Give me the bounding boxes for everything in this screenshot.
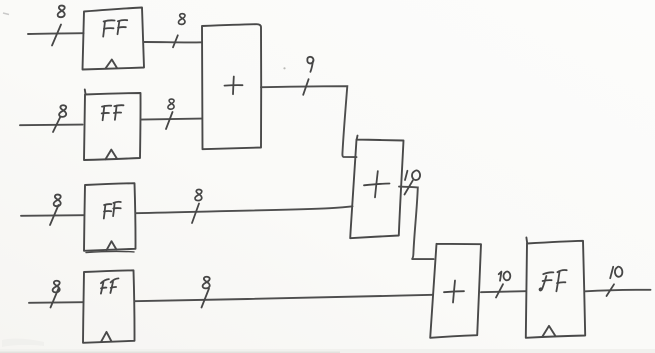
label "10" (U3 output) (499, 271, 511, 280)
label "+" inside adder U3 (444, 281, 464, 303)
wire: input bus to FF4 (29, 301, 83, 304)
bus-width marker "10" on U3 output: slash (496, 284, 503, 297)
bus-width marker "10" on FF5 output: slash (607, 284, 615, 296)
bus-width marker "10" on U2 output: slash (405, 180, 413, 194)
wire: input bus to FF1 (28, 32, 84, 35)
flip-flop FF2 (box) (84, 90, 141, 161)
label "8" (FF3 output) (195, 190, 202, 201)
bus-width marker "8" on FF3 input: slash (50, 205, 59, 225)
label "8" (FF1 output) (178, 14, 185, 25)
flip-flop FF1 (box) (83, 8, 145, 70)
bus-width marker "8" on FF2 input: slash (53, 117, 61, 133)
bus-width marker "8" on FF1 input: slash (52, 25, 61, 46)
flip-flop FF3 (box) (84, 183, 136, 252)
bus-width marker "8" on FF4 input: slash (51, 289, 59, 308)
bus-width marker "8" on FF3 output: slash (192, 204, 199, 224)
label "+" inside adder U1 (225, 77, 243, 95)
label "10" (FF5 output) (610, 267, 622, 279)
clock edge caret of FF1 (106, 60, 118, 69)
clock edge caret of FF5 (543, 326, 556, 337)
label "FF" inside FF5 (540, 270, 567, 291)
wire: input bus to FF3 (21, 214, 84, 217)
wire: FF2 output bus to adder U1 (141, 119, 202, 120)
label "FF" inside FF3 (104, 202, 121, 219)
label "8" (FF2 output) (168, 99, 174, 109)
label "8" (FF2 input) (59, 105, 66, 117)
label "8" (FF4 output) (203, 277, 210, 289)
label "9" (U1 output) (307, 57, 313, 72)
adder U1 (box) (202, 24, 261, 149)
bus-width marker "8" on FF1 output: slash (173, 35, 178, 47)
wire: adder U2 output (10-bit) right, down and into adder U3 (399, 187, 434, 260)
clock edge caret of FF2 (106, 150, 118, 160)
wire: FF1 output bus to adder U1 (144, 41, 202, 43)
flip-flop FF4 (box) (83, 270, 135, 343)
label "8" (FF4 input) (53, 281, 60, 293)
wire: adder U1 output (9-bit) across and down to adder U2 (261, 86, 357, 157)
label "FF" inside FF1 (103, 20, 127, 37)
label "8" (FF1 input) (58, 6, 65, 18)
flip-flop FF5 (box) (526, 238, 585, 338)
bus-width marker "8" on FF4 output: slash (202, 289, 210, 308)
adder U2 (box) (350, 136, 403, 239)
label "+" inside adder U2 (364, 171, 390, 197)
label "10" (U2 output) (405, 170, 420, 180)
label "FF" inside FF4 (101, 278, 119, 293)
label "FF" inside FF2 (102, 105, 124, 120)
wire: adder U3 output (10-bit) to FF5 (481, 291, 526, 292)
clock edge caret of FF3 (107, 241, 117, 250)
wire: FF5 output bus (10-bit) (586, 290, 651, 292)
wire: input bus to FF2 (20, 124, 83, 127)
label "8" (FF3 input) (54, 195, 61, 207)
adder U3 (box) (430, 244, 481, 338)
wire: FF4 output bus (8-bit) to adder U3 (135, 295, 434, 301)
wire: FF3 output bus (8-bit) to adder U2 (136, 206, 353, 213)
bus-width marker "9" on U1 output: slash (303, 79, 308, 95)
clock edge caret of FF4 (101, 332, 112, 342)
bus-width marker "8" on FF2 output: slash (166, 112, 173, 129)
